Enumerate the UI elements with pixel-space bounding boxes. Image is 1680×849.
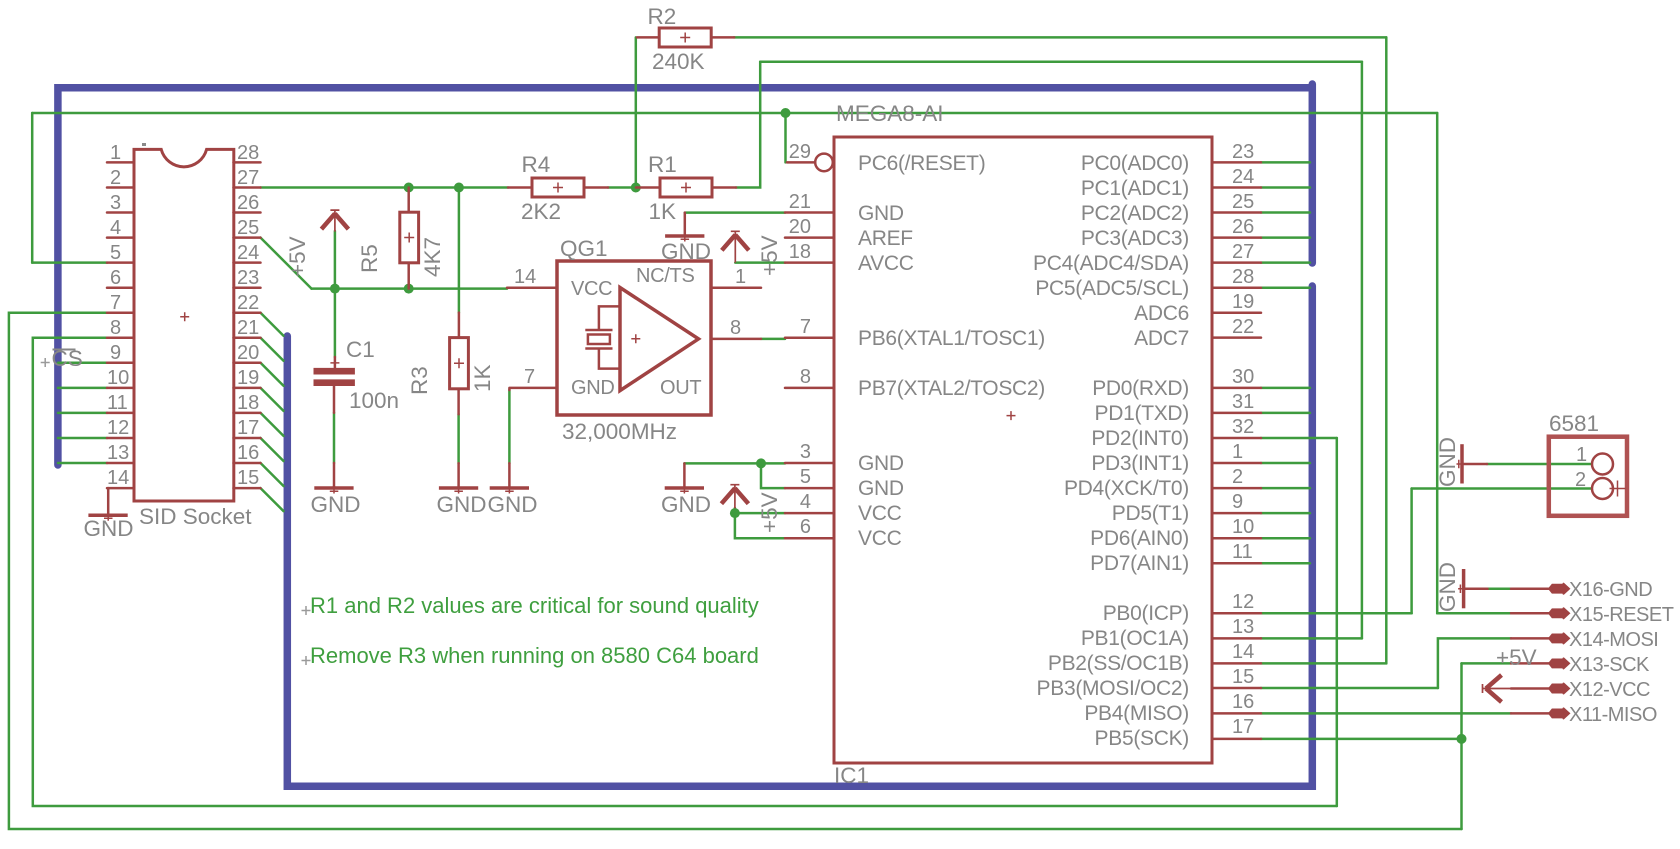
SID pin numbers right xyxy=(237,142,259,489)
svg-text:X13-SCK: X13-SCK xyxy=(1569,654,1650,676)
wire mega pin11 bus entry xyxy=(1261,562,1310,565)
svg-text:14: 14 xyxy=(107,467,129,489)
mega left pin numbers xyxy=(789,141,811,538)
svg-text:22: 22 xyxy=(1232,316,1254,338)
svg-text:3: 3 xyxy=(110,192,121,214)
wire mega pin16 to X11 xyxy=(1261,712,1511,715)
wire mega pin30 bus entry xyxy=(1261,387,1310,390)
svg-text:PD3(INT1): PD3(INT1) xyxy=(1091,452,1189,475)
resistor R1 xyxy=(648,152,712,224)
R1 leads xyxy=(636,186,736,189)
wire C1 bottom green xyxy=(333,413,336,463)
wire SID pin27 to R4 xyxy=(261,186,509,189)
svg-text:18: 18 xyxy=(237,392,259,414)
svg-text:AVCC: AVCC xyxy=(858,252,914,275)
svg-text:GND: GND xyxy=(858,452,904,475)
wire mega pin21 GND xyxy=(685,211,785,214)
wire mega pin27 bus entry xyxy=(1261,261,1310,264)
svg-text:PB1(OC1A): PB1(OC1A) xyxy=(1081,627,1189,650)
svg-text:GND: GND xyxy=(858,202,904,225)
QG1 pin14 VCC stub xyxy=(507,286,557,289)
svg-text:PD6(AIN0): PD6(AIN0) xyxy=(1090,527,1189,550)
wire +5V stem to dot xyxy=(334,231,337,289)
resistor R5 xyxy=(357,212,445,277)
wire mega pin24 bus entry xyxy=(1261,186,1310,189)
IC1 MEGA8 body xyxy=(834,137,1212,763)
wire +5V row y288.6 xyxy=(312,287,508,290)
svg-text:27: 27 xyxy=(237,167,259,189)
svg-text:1K: 1K xyxy=(470,364,495,392)
wire SID pin11 bus entry xyxy=(58,412,107,415)
mega pin3 GND drop xyxy=(683,463,686,486)
bus right segment 1 xyxy=(1309,84,1317,263)
svg-text:28: 28 xyxy=(237,142,259,164)
svg-text:PC4(ADC4/SDA): PC4(ADC4/SDA) xyxy=(1033,252,1189,275)
svg-text:7: 7 xyxy=(524,366,535,388)
svg-text:MEGA8-AI: MEGA8-AI xyxy=(836,101,944,126)
svg-text:PB3(MOSI/OC2): PB3(MOSI/OC2) xyxy=(1037,677,1189,700)
wire X14 vertical xyxy=(1438,638,1511,688)
svg-text:PC5(ADC5/SCL): PC5(ADC5/SCL) xyxy=(1035,277,1189,300)
pin X15 xyxy=(1550,610,1568,617)
wire mega pin17 row xyxy=(1261,738,1462,741)
6581 pin2 circle xyxy=(1592,478,1613,499)
svg-text:PC2(ADC2): PC2(ADC2) xyxy=(1081,202,1189,225)
wire R3 bottom green xyxy=(457,414,460,463)
svg-text:32,000MHz: 32,000MHz xyxy=(562,419,677,444)
wire 6581 pin1 row xyxy=(1487,463,1592,466)
svg-text:NC/TS: NC/TS xyxy=(636,265,695,287)
svg-text:8: 8 xyxy=(110,317,121,339)
svg-text:7: 7 xyxy=(800,316,811,338)
svg-text:X14-MOSI: X14-MOSI xyxy=(1569,629,1658,651)
svg-text:1: 1 xyxy=(735,266,746,288)
wire mega pin9 bus entry xyxy=(1261,512,1310,515)
wire SID pin22 diagonal xyxy=(261,313,284,336)
SID pin numbers left xyxy=(107,142,129,489)
svg-text:4K7: 4K7 xyxy=(420,237,445,277)
svg-text:18: 18 xyxy=(789,241,811,263)
wire mega pin26 bus entry xyxy=(1261,236,1310,239)
svg-text:21: 21 xyxy=(237,317,259,339)
svg-text:9: 9 xyxy=(1232,491,1243,513)
capacitor C1 xyxy=(314,337,400,413)
svg-text:OUT: OUT xyxy=(660,377,701,399)
svg-text:24: 24 xyxy=(237,242,259,264)
wire QG1 GND drop green xyxy=(508,390,511,463)
mega pin29 stub xyxy=(787,161,815,164)
svg-text:26: 26 xyxy=(1232,216,1254,238)
svg-text:VCC: VCC xyxy=(858,502,902,525)
wire SID pin12 bus entry xyxy=(58,437,107,440)
svg-text:10: 10 xyxy=(1232,516,1254,538)
svg-text:4: 4 xyxy=(110,217,121,239)
wire SID pin19 diagonal xyxy=(261,388,284,411)
svg-text:PB2(SS/OC1B): PB2(SS/OC1B) xyxy=(1048,652,1189,675)
C1 leads xyxy=(333,357,336,487)
mega pin21 GND symbol xyxy=(665,236,704,242)
wire +5V2 to pin4 xyxy=(735,512,785,515)
wire RESET drop to mega pin29 xyxy=(784,113,787,162)
resistor R4 xyxy=(521,152,584,224)
svg-text:ADC6: ADC6 xyxy=(1134,302,1189,325)
svg-text:21: 21 xyxy=(789,191,811,213)
R5 leads xyxy=(407,188,410,289)
svg-text:PB6(XTAL1/TOSC1): PB6(XTAL1/TOSC1) xyxy=(858,327,1045,350)
wire SID pin7 left down bottom xyxy=(9,313,1462,829)
svg-text:C1: C1 xyxy=(346,337,375,362)
R3 GND symbol xyxy=(439,488,478,494)
QG1 buffer triangle xyxy=(620,288,699,391)
R3 leads xyxy=(457,313,460,415)
svg-text:27: 27 xyxy=(1232,241,1254,263)
wire SID pin5 stub link xyxy=(32,261,107,264)
wire mega pin2 bus entry xyxy=(1261,487,1310,490)
+5V supply AVCC xyxy=(722,231,782,276)
X16 GND stub xyxy=(1464,587,1488,590)
svg-text:GND: GND xyxy=(571,377,615,399)
svg-text:15: 15 xyxy=(237,467,259,489)
SID socket top dot xyxy=(142,143,146,146)
svg-text:14: 14 xyxy=(1232,641,1254,663)
QG1 pin1 NC stub xyxy=(711,286,761,289)
wire SID pin17 diagonal xyxy=(261,438,284,461)
X pin labels xyxy=(1569,579,1674,726)
svg-text:17: 17 xyxy=(237,417,259,439)
svg-text:2: 2 xyxy=(1575,469,1586,491)
oscillator QG1 body xyxy=(557,261,711,415)
annotation cross 1 xyxy=(302,606,311,615)
svg-text:240K: 240K xyxy=(652,49,705,74)
svg-text:IC1: IC1 xyxy=(834,763,869,788)
wire R2 left vertical xyxy=(635,37,638,187)
svg-text:12: 12 xyxy=(1232,591,1254,613)
svg-text:1: 1 xyxy=(110,142,121,164)
svg-text:19: 19 xyxy=(1232,291,1254,313)
wire SID pin13 bus entry xyxy=(58,462,107,465)
wire pin3 dot down pin5 xyxy=(761,463,785,488)
junction dot R1 left xyxy=(631,183,641,193)
wire 6581 pin2 row xyxy=(1412,487,1592,490)
wire QG1 out to mega pin7 xyxy=(761,338,785,341)
svg-text:13: 13 xyxy=(1232,616,1254,638)
svg-text:100n: 100n xyxy=(349,388,399,413)
QG1 GND symbol xyxy=(490,488,529,494)
QG1 origin cross xyxy=(631,334,640,343)
svg-text:X11-MISO: X11-MISO xyxy=(1569,704,1657,726)
wire mega pin25 bus entry xyxy=(1261,211,1310,214)
svg-text:6: 6 xyxy=(800,516,811,538)
wire X15-RESET horizontal xyxy=(1437,612,1511,615)
svg-text:32: 32 xyxy=(1232,416,1254,438)
wire mega pin32 row xyxy=(1261,437,1337,440)
pin X13 xyxy=(1550,660,1568,667)
wire mega pin1 bus entry xyxy=(1261,462,1310,465)
R3 GND drop maroon xyxy=(457,463,460,486)
svg-text:GND: GND xyxy=(858,477,904,500)
svg-text:12: 12 xyxy=(107,417,129,439)
wire R4 to R1 xyxy=(608,186,637,189)
svg-text:R2: R2 xyxy=(648,4,677,29)
svg-text:25: 25 xyxy=(237,217,259,239)
svg-text:13: 13 xyxy=(107,442,129,464)
pin X12 xyxy=(1550,685,1568,692)
junction dot R4-R3 xyxy=(454,183,464,193)
svg-text:R3: R3 xyxy=(407,366,432,395)
wire RESET horizontal y113 xyxy=(32,112,1437,115)
svg-text:PC6(/RESET): PC6(/RESET) xyxy=(858,152,985,175)
svg-text:6581: 6581 xyxy=(1549,411,1599,436)
mega left pin stubs xyxy=(785,213,834,539)
mega pin3 GND symbol xyxy=(665,488,704,494)
svg-text:QG1: QG1 xyxy=(560,236,608,261)
wire SID pin8 left down xyxy=(33,338,1337,806)
6581 origin cross xyxy=(1610,481,1626,497)
svg-text:PC1(ADC1): PC1(ADC1) xyxy=(1081,177,1189,200)
svg-text:23: 23 xyxy=(1232,141,1254,163)
svg-text:28: 28 xyxy=(1232,266,1254,288)
QG1 crystal xyxy=(585,306,620,368)
svg-text:14: 14 xyxy=(514,266,536,288)
svg-text:PD2(INT0): PD2(INT0) xyxy=(1091,427,1189,450)
svg-text:1: 1 xyxy=(1232,441,1243,463)
svg-text:20: 20 xyxy=(237,342,259,364)
wire X13 row xyxy=(1462,662,1512,665)
svg-text:PB5(SCK): PB5(SCK) xyxy=(1095,727,1189,750)
svg-text:GND: GND xyxy=(311,492,361,517)
svg-text:Remove R3 when running on 8580: Remove R3 when running on 8580 C64 board xyxy=(310,643,759,668)
mega right pin numbers xyxy=(1232,141,1254,738)
svg-text:GND: GND xyxy=(437,492,487,517)
bus top+left xyxy=(58,88,1312,465)
svg-text:16: 16 xyxy=(1232,691,1254,713)
svg-text:PD5(T1): PD5(T1) xyxy=(1112,502,1189,525)
6581 pin1 circle xyxy=(1592,454,1613,475)
X pin lines xyxy=(1511,589,1550,714)
pin X16 xyxy=(1550,585,1568,592)
X pin symbols (blob+arrow) xyxy=(1550,584,1570,719)
svg-text:PC3(ADC3): PC3(ADC3) xyxy=(1081,227,1189,250)
wire pin4 dot down pin6 xyxy=(735,513,785,538)
svg-text:GND: GND xyxy=(488,492,538,517)
wire v1386 down to mega pin14 xyxy=(1385,37,1388,663)
wire mega pin13 row xyxy=(1261,637,1362,640)
junction dot mega pin3 xyxy=(756,458,766,468)
net label -CS xyxy=(41,346,83,371)
svg-text:11: 11 xyxy=(1232,541,1253,563)
+5V supply X12 left arrow xyxy=(1482,645,1537,702)
svg-text:R5: R5 xyxy=(357,244,382,273)
svg-text:VCC: VCC xyxy=(858,527,902,550)
svg-text:23: 23 xyxy=(237,267,259,289)
wire mega pin12 row xyxy=(1261,612,1412,615)
IC1 origin cross xyxy=(1007,411,1016,420)
wire mega AVCC xyxy=(735,261,785,264)
svg-text:+5V: +5V xyxy=(285,236,310,277)
SID socket body xyxy=(134,149,234,501)
svg-text:R1: R1 xyxy=(648,152,677,177)
6581 GND symbol rotated xyxy=(1457,444,1463,483)
svg-text:7: 7 xyxy=(110,292,121,314)
svg-text:PD1(TXD): PD1(TXD) xyxy=(1095,402,1189,425)
svg-text:19: 19 xyxy=(237,367,259,389)
wire SID pin20 diagonal xyxy=(261,363,284,386)
+5V supply VCC pins4-6 xyxy=(721,484,782,533)
svg-text:ADC7: ADC7 xyxy=(1134,327,1189,350)
wire RESET right vertical to X15 xyxy=(1436,113,1439,613)
svg-text:X12-VCC: X12-VCC xyxy=(1569,679,1650,701)
svg-text:PB0(ICP): PB0(ICP) xyxy=(1103,602,1189,625)
wire mega pin15 row xyxy=(1261,687,1438,690)
+5V supply near SID xyxy=(285,210,348,277)
svg-text:PB7(XTAL2/TOSC2): PB7(XTAL2/TOSC2) xyxy=(858,377,1045,400)
svg-text:1: 1 xyxy=(1576,444,1587,466)
svg-text:17: 17 xyxy=(1232,716,1254,738)
mega pin29 reset circle xyxy=(815,154,833,172)
wire mega pin14 row xyxy=(1261,662,1386,665)
svg-text:2: 2 xyxy=(1232,466,1243,488)
junction dot SCK xyxy=(1457,734,1467,744)
svg-text:GND: GND xyxy=(1435,437,1460,487)
wire X16 link xyxy=(1488,587,1512,590)
svg-text:PB4(MISO): PB4(MISO) xyxy=(1084,702,1189,725)
SID socket pin stubs right 28-15 xyxy=(234,162,261,488)
svg-text:+5V: +5V xyxy=(1496,645,1537,670)
wire v1336 pin32 xyxy=(1336,438,1339,806)
svg-text:9: 9 xyxy=(110,342,121,364)
svg-text:PD4(XCK/T0): PD4(XCK/T0) xyxy=(1064,477,1189,500)
svg-text:10: 10 xyxy=(107,367,129,389)
svg-text:6: 6 xyxy=(110,267,121,289)
wire SID pin25 diagonal xyxy=(261,238,312,289)
wire mega pin10 bus entry xyxy=(1261,537,1310,540)
QG1 pin7 GND stub xyxy=(509,388,557,390)
wire v1361 down to mega pin13 xyxy=(1361,62,1364,639)
svg-text:VCC: VCC xyxy=(571,278,612,300)
svg-text:11: 11 xyxy=(107,392,128,414)
junction dot R4-R5 xyxy=(404,183,414,193)
svg-text:PD7(AIN1): PD7(AIN1) xyxy=(1090,552,1189,575)
bus right segment 2 + bottom + second left vertical xyxy=(287,286,1312,786)
svg-text:R1 and R2 values are critical: R1 and R2 values are critical for sound … xyxy=(310,593,759,618)
wire SID pin10 bus entry xyxy=(58,387,107,390)
QG1 GND drop maroon xyxy=(508,463,511,486)
svg-text:24: 24 xyxy=(1232,166,1254,188)
wire RESET left vertical to SID pin5 xyxy=(31,113,34,263)
wire SID pin15 diagonal xyxy=(261,488,284,511)
mega right pin names xyxy=(1033,152,1189,750)
svg-text:GND: GND xyxy=(84,516,134,541)
SID pin14 GND drop xyxy=(107,488,110,514)
annotation cross 2 xyxy=(302,656,311,665)
wire mega pin31 bus entry xyxy=(1261,412,1310,415)
R2 leads xyxy=(637,36,734,39)
svg-text:GND: GND xyxy=(1435,562,1460,612)
svg-text:29: 29 xyxy=(789,141,811,163)
svg-text:PD0(RXD): PD0(RXD) xyxy=(1092,377,1189,400)
svg-text:20: 20 xyxy=(789,216,811,238)
wire y61.8 horizontal xyxy=(760,61,1362,64)
pin X14 xyxy=(1550,635,1568,642)
R4 leads xyxy=(508,186,608,189)
wire C1 top lead green xyxy=(334,289,337,357)
C1 GND drop maroon xyxy=(333,485,336,488)
svg-text:30: 30 xyxy=(1232,366,1254,388)
svg-text:5: 5 xyxy=(110,242,121,264)
junction dot +5V row C1 xyxy=(330,284,340,294)
svg-text:25: 25 xyxy=(1232,191,1254,213)
wire SID pin18 diagonal xyxy=(261,413,284,436)
svg-text:AREF: AREF xyxy=(858,227,913,250)
connector 6581 body xyxy=(1549,437,1627,516)
svg-text:R4: R4 xyxy=(522,152,551,177)
svg-text:SID Socket: SID Socket xyxy=(139,504,252,529)
svg-text:4: 4 xyxy=(800,491,811,513)
wire SID pin21 diagonal xyxy=(261,338,284,361)
wire mega pin3 GND row xyxy=(684,462,785,465)
junction dot +5V row R5 xyxy=(404,284,414,294)
wire SCK vertical xyxy=(1460,663,1463,829)
resistor R3 xyxy=(407,338,495,395)
wire +5V2 stem green xyxy=(734,508,737,513)
resistor R2 xyxy=(648,4,712,74)
svg-text:8: 8 xyxy=(730,317,741,339)
svg-text:X16-GND: X16-GND xyxy=(1569,579,1652,601)
mega left pin names xyxy=(858,152,1045,550)
wire R2 right to v1386 xyxy=(734,36,1386,39)
svg-text:1K: 1K xyxy=(649,199,677,224)
svg-text:16: 16 xyxy=(237,442,259,464)
SID socket origin cross xyxy=(180,312,189,321)
pin X11 xyxy=(1550,710,1568,717)
wire SID pin16 diagonal xyxy=(261,463,284,486)
svg-text:22: 22 xyxy=(237,292,259,314)
wire R3 top green xyxy=(458,188,461,313)
svg-text:3: 3 xyxy=(800,441,811,463)
wire R1 right up v759 xyxy=(736,62,760,188)
SID socket pin stubs left 1-14 xyxy=(107,162,134,488)
svg-text:31: 31 xyxy=(1232,391,1254,413)
C1 GND symbol xyxy=(314,488,353,494)
svg-text:2: 2 xyxy=(110,167,121,189)
svg-text:X15-RESET: X15-RESET xyxy=(1569,604,1674,626)
svg-text:5: 5 xyxy=(800,466,811,488)
svg-text:15: 15 xyxy=(1232,666,1254,688)
svg-text:+5V: +5V xyxy=(757,492,782,533)
wire v1411 up xyxy=(1410,489,1413,614)
SID socket GND symbol xyxy=(88,515,127,521)
svg-text:8: 8 xyxy=(800,366,811,388)
svg-text:PC0(ADC0): PC0(ADC0) xyxy=(1081,152,1189,175)
junction dot reset pin29 xyxy=(781,108,791,118)
6581 GND stub xyxy=(1463,463,1487,466)
mega pin21 GND drop xyxy=(684,213,687,235)
svg-text:GND: GND xyxy=(661,492,711,517)
svg-text:+5V: +5V xyxy=(757,235,782,276)
QG1 pin8 OUT stub xyxy=(711,338,761,341)
wire mega pin23 bus entry xyxy=(1261,161,1310,164)
svg-text:26: 26 xyxy=(237,192,259,214)
X16 GND symbol rotated xyxy=(1458,569,1464,608)
junction dot +5V pins4-6 xyxy=(730,508,740,518)
wire mega pin28 bus entry xyxy=(1261,286,1310,289)
wire SID pin9 bus entry xyxy=(58,362,107,365)
mega right pin stubs xyxy=(1212,162,1261,739)
svg-text:2K2: 2K2 xyxy=(521,199,561,224)
